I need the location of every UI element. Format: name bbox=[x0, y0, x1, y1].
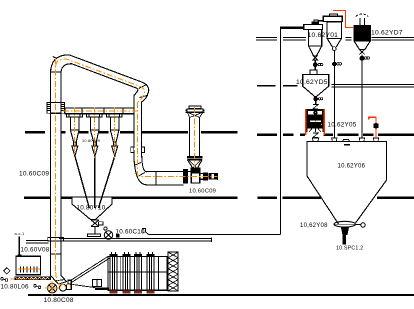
riser flanges hatched bbox=[47, 103, 64, 114]
floor level 2 right (y=85.8 left single, 84.3/87 double right) bbox=[257, 85, 298, 87]
diamond bbox=[4, 268, 10, 274]
riser top tick bbox=[53, 57, 57, 59]
comb ticks in box bbox=[20, 266, 37, 272]
fan wheel circle bbox=[48, 284, 57, 293]
svg-text:10.80L06: 10.80L06 bbox=[1, 283, 30, 290]
vibrating feeder box 10.60V08 bbox=[16, 256, 41, 275]
cyclone 10.62Y01 (left unit) bbox=[304, 24, 323, 29]
ORANGE CENTERLINES bbox=[11, 58, 218, 296]
screw strip centerline bbox=[11, 278, 47, 280]
floor level 1 right (double line y=37.3/40) bbox=[256, 37, 414, 40]
svg-text:10.62YD5: 10.62YD5 bbox=[296, 79, 328, 86]
drum band groups bbox=[110, 256, 159, 290]
small flag at valve bbox=[99, 222, 104, 225]
svg-text:10.62Y06: 10.62Y06 bbox=[338, 164, 366, 170]
zigzag connector above Y05 bbox=[313, 105, 318, 110]
cyclone1 tip bowtie bbox=[313, 56, 317, 60]
zigzag below Y05 bbox=[313, 133, 318, 138]
svg-text:10.60C09: 10.60C09 bbox=[189, 189, 216, 195]
screw conveyor 10.80L06 hatched casing bbox=[15, 277, 52, 281]
tee body under duct2 bbox=[191, 173, 200, 183]
svg-text:10.80C08: 10.80C08 bbox=[44, 297, 74, 304]
rotary valve 10.62Y05 body bbox=[306, 109, 324, 132]
arch centerline bbox=[56, 59, 145, 102]
svg-text:10.62YD7: 10.62YD7 bbox=[371, 30, 403, 37]
svg-text:10.60V08: 10.60V08 bbox=[21, 247, 50, 254]
discharge lines to hopper bbox=[75, 156, 115, 208]
cyclone bodies bbox=[71, 117, 79, 130]
transition rects bbox=[68, 280, 71, 284]
cyclone cones bbox=[71, 130, 80, 146]
duct1 flange tabs bbox=[131, 147, 145, 153]
drum top caps bbox=[109, 252, 154, 257]
cyclone centerlines bbox=[75, 108, 115, 159]
svg-text:10.SPC1.2: 10.SPC1.2 bbox=[336, 246, 363, 252]
svg-text:10.62Y05: 10.62Y05 bbox=[328, 121, 357, 128]
cyclone tips (flares) bbox=[72, 146, 78, 156]
cyclone bank inlet connectors bbox=[67, 114, 123, 117]
svg-text:a.c.1: a.c.1 bbox=[15, 231, 25, 236]
horizontal duct bbox=[147, 172, 192, 185]
orange pipe top right bbox=[333, 11, 354, 28]
riser bottom elbow segments bbox=[51, 275, 67, 284]
arch elbow joint ticks bbox=[139, 84, 148, 97]
floor level 3 left (thick y=132.3) bbox=[25, 131, 238, 133]
RIGHT SYSTEM bbox=[149, 14, 387, 245]
svg-text:10.80Y09: 10.80Y09 bbox=[82, 139, 100, 143]
hopper 10.62YD5 body bbox=[303, 75, 329, 97]
arch inner wall bbox=[61, 64, 138, 148]
riser centerline bbox=[56, 58, 60, 285]
feed line L-shape bbox=[280, 27, 303, 29]
support rect under chute bbox=[93, 280, 102, 287]
rotary dryer drum 10.80C08 shell bbox=[108, 256, 167, 290]
tiny circles bottom-left bbox=[1, 278, 4, 281]
horiz duct black flange bbox=[183, 170, 185, 184]
duct2 reducer with X bbox=[188, 160, 203, 168]
duct1 + horizontal duct centerline bbox=[138, 102, 218, 177]
duct2 centerline bbox=[193, 107, 195, 168]
valve stem down + base bbox=[94, 227, 96, 235]
riser joint lines bbox=[51, 72, 61, 254]
hopper 10.80Y10 body bbox=[72, 197, 112, 220]
ground line y=296.3 bbox=[28, 294, 414, 296]
cyclone1 ball valve bbox=[313, 63, 317, 67]
lobster elbow bbox=[134, 150, 147, 185]
header bbox=[65, 108, 134, 114]
FLOORS bbox=[24, 37, 414, 295]
floor level 3 right (thick y=134.8) bbox=[257, 134, 414, 136]
LEFT SYSTEM bbox=[1, 55, 218, 293]
header centerline bbox=[63, 110, 137, 112]
screw conveyor 10.60C10 bbox=[59, 239, 211, 242]
floor level 4 (thick y=197.8) bbox=[24, 197, 414, 200]
drum bottom red marks bbox=[110, 290, 155, 293]
silo hopper 10.62Y06 body bbox=[307, 142, 387, 181]
line from long vertical to left at y=234 (drawn in right group) bbox=[142, 228, 145, 232]
duct2 bottom flange bbox=[187, 157, 202, 159]
chute diagonals to drum bbox=[71, 256, 110, 282]
fan small circle bbox=[60, 284, 67, 291]
filter vessel 10.62YD7 bbox=[356, 14, 369, 17]
svg-text:10,62Y08: 10,62Y08 bbox=[300, 223, 328, 229]
riser lower flange tabs bbox=[48, 238, 51, 242]
arch outer wall bbox=[51, 55, 149, 148]
svg-text:10.60C09: 10.60C09 bbox=[19, 171, 49, 178]
svg-text:10.60C10: 10.60C10 bbox=[116, 229, 146, 236]
inlet square to YD5 bbox=[310, 70, 317, 75]
lattice end bbox=[168, 252, 178, 291]
hopper bottom valve bowtie bbox=[91, 220, 99, 227]
duct2 top cap bbox=[189, 106, 201, 109]
butterfly valve 10.62Y08 bbox=[334, 221, 355, 227]
orange pipe at right of hopper bbox=[369, 117, 376, 138]
cyclone 10.62Y01 (right unit) bbox=[329, 14, 337, 16]
duct2 walls bbox=[189, 118, 199, 157]
svg-text:10.80Y10: 10.80Y10 bbox=[77, 205, 106, 212]
feet on big hopper top bbox=[312, 138, 319, 142]
screw box centerline bbox=[18, 268, 40, 270]
svg-text:10.62Y01: 10.62Y01 bbox=[308, 32, 339, 39]
rotary feeder circle bbox=[104, 231, 112, 239]
actuator + arrow bbox=[341, 228, 349, 236]
riser duct 10.60C09 walls bbox=[51, 72, 61, 275]
right stub off tee bbox=[200, 174, 204, 180]
